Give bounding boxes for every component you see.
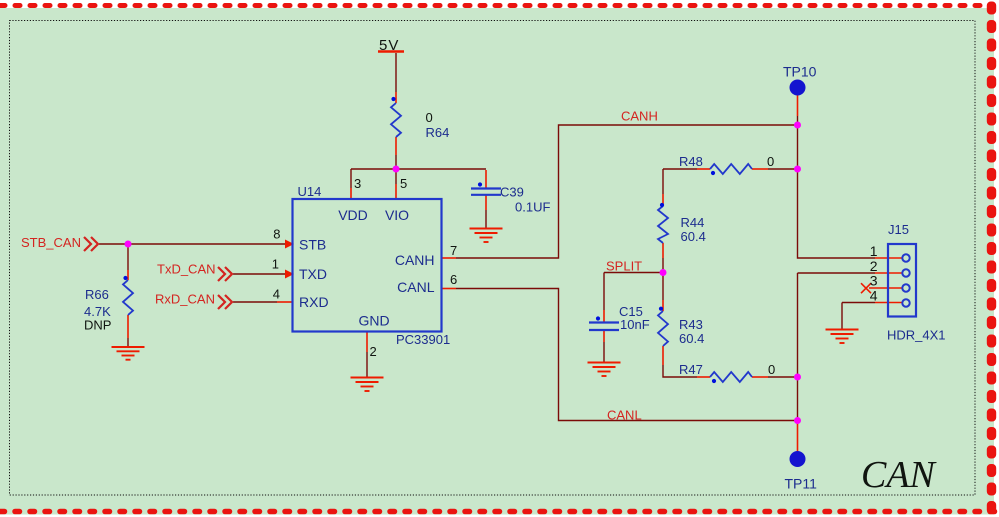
svg-text:R44: R44 [681, 215, 705, 230]
svg-text:STB_CAN: STB_CAN [21, 235, 81, 250]
svg-text:4: 4 [870, 288, 878, 304]
svg-text:8: 8 [273, 227, 280, 242]
svg-text:0: 0 [767, 154, 774, 169]
svg-text:R64: R64 [426, 125, 450, 140]
svg-text:TP11: TP11 [785, 476, 818, 492]
svg-text:CANH: CANH [621, 109, 658, 124]
svg-text:RxD_CAN: RxD_CAN [155, 292, 215, 307]
svg-text:R66: R66 [85, 287, 109, 302]
svg-text:CAN: CAN [861, 454, 938, 496]
svg-text:SPLIT: SPLIT [606, 259, 642, 274]
svg-text:0: 0 [426, 110, 433, 125]
svg-text:1: 1 [272, 257, 279, 272]
svg-text:0: 0 [768, 362, 775, 377]
svg-text:CANL: CANL [607, 408, 642, 423]
svg-text:CANL: CANL [397, 279, 435, 295]
svg-text:6: 6 [450, 272, 457, 287]
svg-text:J15: J15 [888, 222, 909, 237]
svg-text:R48: R48 [679, 154, 703, 169]
svg-text:TXD: TXD [299, 266, 327, 282]
svg-text:10nF: 10nF [620, 317, 650, 332]
svg-text:R43: R43 [679, 317, 703, 332]
svg-text:U14: U14 [298, 184, 322, 199]
svg-text:60.4: 60.4 [681, 229, 706, 244]
svg-text:STB: STB [299, 237, 326, 253]
svg-text:4: 4 [273, 287, 280, 302]
svg-text:4.7K: 4.7K [84, 304, 111, 319]
svg-text:HDR_4X1: HDR_4X1 [887, 328, 946, 343]
svg-text:TP10: TP10 [783, 64, 817, 80]
svg-text:GND: GND [358, 313, 389, 329]
svg-text:1: 1 [870, 243, 878, 259]
svg-text:5V: 5V [379, 37, 399, 54]
svg-text:RXD: RXD [299, 294, 329, 310]
svg-text:3: 3 [354, 176, 361, 191]
svg-text:60.4: 60.4 [679, 331, 704, 346]
svg-text:C39: C39 [500, 185, 524, 200]
svg-text:TxD_CAN: TxD_CAN [157, 262, 216, 277]
svg-text:PC33901: PC33901 [396, 332, 450, 347]
svg-text:2: 2 [370, 344, 377, 359]
svg-text:CANH: CANH [395, 252, 435, 268]
svg-text:DNP: DNP [84, 318, 111, 333]
svg-text:5: 5 [400, 176, 407, 191]
svg-text:VIO: VIO [385, 207, 409, 223]
svg-text:VDD: VDD [338, 207, 368, 223]
svg-text:3: 3 [870, 273, 878, 289]
svg-text:7: 7 [450, 243, 457, 258]
svg-text:0.1UF: 0.1UF [515, 200, 550, 215]
svg-text:R47: R47 [679, 362, 703, 377]
